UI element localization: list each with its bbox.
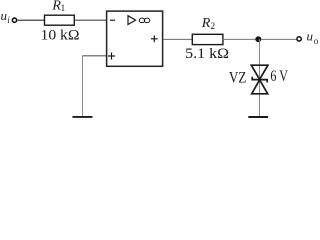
svg-text:2: 2: [210, 22, 215, 32]
svg-text:5.1 kΩ: 5.1 kΩ: [185, 46, 229, 62]
svg-text:VZ: VZ: [229, 69, 247, 86]
svg-text:10 kΩ: 10 kΩ: [41, 28, 80, 44]
svg-text:o: o: [314, 36, 318, 46]
svg-text:R: R: [201, 16, 211, 31]
svg-text:6 V: 6 V: [270, 68, 288, 85]
svg-text:u: u: [307, 29, 314, 44]
svg-text:1: 1: [61, 4, 66, 14]
